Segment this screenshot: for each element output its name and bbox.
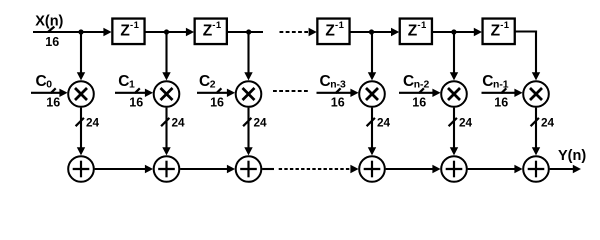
bus-width slash (16-bit) on C1 wire xyxy=(135,88,140,93)
bus-width slash (16-bit) on X(n) wire xyxy=(48,27,54,32)
multiplier M5 xyxy=(441,81,467,107)
wire: coefficient Cn-3 into multiplier M4 xyxy=(317,89,359,97)
svg-text:16: 16 xyxy=(45,35,59,49)
wire: dashed continuation into delay Z3 xyxy=(280,28,317,36)
delay element Z1 (Z^-1 block) xyxy=(112,19,144,45)
svg-text:16: 16 xyxy=(129,95,143,109)
svg-text:16: 16 xyxy=(331,95,345,109)
svg-text:2: 2 xyxy=(210,80,216,91)
bus-width slash (16-bit) on Cn-2 wire xyxy=(419,88,424,93)
wire: delay Z1 output to delay Z2, tap node 1 xyxy=(145,28,194,36)
delay element Z4 (Z^-1 block) xyxy=(400,19,432,45)
wire: adder A6 output Y(n) xyxy=(550,165,581,173)
svg-text:24: 24 xyxy=(377,116,391,130)
svg-text:16: 16 xyxy=(412,95,426,109)
svg-text:-1: -1 xyxy=(212,20,222,31)
svg-text:24: 24 xyxy=(254,116,268,130)
junction: tap node n-2 xyxy=(451,29,456,34)
wire: tap node down into multiplier M3 xyxy=(244,32,252,80)
svg-text:-1: -1 xyxy=(335,20,345,31)
bus-width slash (24-bit) on product wire 6 xyxy=(531,118,539,126)
bus-width slash (24-bit) on product wire 3 xyxy=(243,118,251,126)
multiplier M3 xyxy=(236,81,262,107)
svg-text:Y(n): Y(n) xyxy=(558,148,586,164)
svg-text:-1: -1 xyxy=(130,20,140,31)
svg-text:24: 24 xyxy=(172,116,186,130)
wire: adder A5 to adder A6 xyxy=(468,165,523,173)
wire: tap node down into multiplier M5 xyxy=(450,32,458,80)
wire: coefficient C2 into multiplier M3 xyxy=(197,89,235,97)
svg-text:C: C xyxy=(320,73,331,90)
coefficient label C2 xyxy=(199,73,216,91)
wire: delay Z5 output bend to multiplier M6 column (node n-1) xyxy=(515,30,537,32)
svg-text:n-3: n-3 xyxy=(330,80,346,91)
wire: adder A1 to adder A2 xyxy=(95,165,154,173)
bus-width slash (16-bit) on Cn-1 wire xyxy=(501,88,506,93)
junction: tap node 1 xyxy=(164,29,169,34)
svg-text:C: C xyxy=(118,73,129,90)
svg-text:16: 16 xyxy=(210,95,224,109)
wire: adder A2 to adder A3 xyxy=(180,165,235,173)
bus-width slash (16-bit) on Cn-3 wire xyxy=(336,88,341,93)
wire: dashed ellipsis on coefficient row (continuation) xyxy=(273,90,309,92)
wire: delay Z4 output to delay Z5, tap node n-2 xyxy=(432,28,482,36)
wire: adder A4 to adder A5 xyxy=(386,165,441,173)
svg-text:-1: -1 xyxy=(417,20,427,31)
wire: coefficient Cn-1 into multiplier M6 xyxy=(482,89,523,97)
coefficient label Cn-3 xyxy=(320,73,347,91)
svg-text:C: C xyxy=(482,73,493,90)
adder A2 xyxy=(154,156,180,182)
svg-text:n-2: n-2 xyxy=(414,80,430,91)
junction: tap node n-3 xyxy=(369,29,374,34)
bus-width slash (24-bit) on product wire 2 xyxy=(161,118,169,126)
junction: tap node 2 xyxy=(246,29,251,34)
coefficient label C0 xyxy=(36,73,53,91)
adder A4 xyxy=(359,156,385,182)
wire: product of M1 down into adder A1 xyxy=(77,108,85,156)
svg-text:X(n): X(n) xyxy=(35,14,63,30)
wire: tap node down into multiplier M4 xyxy=(368,32,376,80)
wire: product of M4 down into adder A4 xyxy=(368,108,376,156)
wire: tap node down into multiplier M1 xyxy=(77,32,85,80)
svg-text:Z: Z xyxy=(325,23,335,40)
svg-text:C: C xyxy=(199,73,210,90)
bus-width slash (24-bit) on product wire 1 xyxy=(76,118,84,126)
svg-text:-1: -1 xyxy=(500,20,510,31)
svg-text:16: 16 xyxy=(46,95,60,109)
wire: tap node down into multiplier M6 xyxy=(532,31,540,81)
delay element Z3 (Z^-1 block) xyxy=(317,19,349,45)
wire: product of M2 down into adder A2 xyxy=(162,108,170,156)
svg-text:24: 24 xyxy=(541,116,555,130)
multiplier M6 xyxy=(523,81,549,107)
svg-text:16: 16 xyxy=(494,95,508,109)
svg-text:0: 0 xyxy=(46,80,52,91)
svg-text:1: 1 xyxy=(129,80,135,91)
wire: X(n) input to delay Z1 xyxy=(33,28,112,36)
wire: adder A3 to adder A4 (dashed continuation) xyxy=(262,165,359,173)
coefficient label Cn-2 xyxy=(403,73,430,91)
adder A5 xyxy=(441,156,467,182)
wire: product of M3 down into adder A3 xyxy=(244,108,252,156)
adder A3 xyxy=(236,156,262,182)
bus-width slash (24-bit) on product wire 5 xyxy=(449,118,457,126)
multiplier M4 xyxy=(359,81,385,107)
svg-text:Z: Z xyxy=(408,23,418,40)
multiplier M2 xyxy=(154,81,180,107)
svg-text:Z: Z xyxy=(203,23,213,40)
wire: tap node down into multiplier M2 xyxy=(162,32,170,80)
coefficient label C1 xyxy=(118,73,135,91)
coefficient label Cn-1 xyxy=(482,73,509,91)
junction: tap node 0 on X(n) line xyxy=(78,29,83,34)
svg-text:24: 24 xyxy=(459,116,473,130)
bus-width slash (16-bit) on C0 wire xyxy=(51,88,56,93)
wire: delay Z2 output to tap node 2 xyxy=(227,31,263,33)
adder A1 xyxy=(68,156,94,182)
multiplier M1 xyxy=(68,81,94,107)
svg-text:C: C xyxy=(403,73,414,90)
bus-width slash (24-bit) on product wire 4 xyxy=(367,118,375,126)
svg-text:Z: Z xyxy=(120,23,130,40)
wire: coefficient Cn-2 into multiplier M5 xyxy=(399,89,441,97)
bus-width slash (16-bit) on C2 wire xyxy=(216,88,221,93)
wire: coefficient C1 into multiplier M2 xyxy=(115,89,153,97)
wire: product of M6 down into adder A6 xyxy=(532,108,540,156)
wire: product of M5 down into adder A5 xyxy=(450,108,458,156)
svg-text:24: 24 xyxy=(86,116,100,130)
wire: delay Z3 output to delay Z4, tap node n-3 xyxy=(350,28,400,36)
delay element Z2 (Z^-1 block) xyxy=(195,19,227,45)
delay element Z5 (Z^-1 block) xyxy=(483,19,515,45)
wire: coefficient C0 into multiplier M1 xyxy=(31,89,68,97)
svg-text:Z: Z xyxy=(491,23,501,40)
svg-text:C: C xyxy=(36,73,47,90)
adder A6 xyxy=(523,156,549,182)
